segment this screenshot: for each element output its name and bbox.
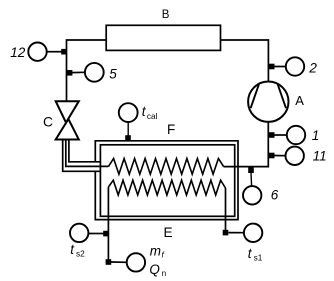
condenser B <box>106 25 220 50</box>
node t_cal <box>125 135 131 141</box>
node 2 <box>269 64 275 70</box>
svg-text:5: 5 <box>109 67 117 82</box>
svg-text:B: B <box>162 9 170 21</box>
pipe inner line valve to vessel wall <box>69 140 101 162</box>
wire to sensor m_f <box>111 261 127 263</box>
probe t_cal stem <box>127 122 129 137</box>
wire to sensor t_s1 <box>229 232 245 234</box>
svg-text:cal: cal <box>147 112 158 121</box>
node t_s1 <box>223 230 229 236</box>
sensor circle m_f <box>127 253 145 271</box>
wire to sensor 2 <box>273 66 286 68</box>
wire to sensor 1 <box>273 134 287 136</box>
probe circle t_cal <box>119 103 138 122</box>
sensor circle t_s2 <box>70 224 88 242</box>
svg-text:C: C <box>43 114 53 129</box>
wire to sensor 6 <box>250 173 253 187</box>
node 5 <box>67 70 73 76</box>
svg-text:11: 11 <box>313 148 327 163</box>
sensor circle 11 <box>286 147 304 165</box>
wire B left to valve <box>67 40 107 101</box>
svg-text:1: 1 <box>312 128 320 143</box>
wire to sensor 5 <box>71 71 85 73</box>
sensor circle 2 <box>286 57 304 75</box>
vessel inner shell E <box>100 145 234 217</box>
sensor circle 5 <box>85 63 104 82</box>
wire to sensor 12 <box>47 51 62 53</box>
pipe outer line valve to vessel <box>63 140 101 172</box>
svg-text:n: n <box>162 269 167 278</box>
pipe middle line valve to coil <box>66 140 109 167</box>
svg-text:E: E <box>164 225 173 240</box>
svg-text:6: 6 <box>271 188 279 203</box>
sensor circle 6 <box>243 186 261 204</box>
node 12 <box>61 49 67 55</box>
expansion valve C upper triangle <box>56 101 79 122</box>
node 1 <box>269 132 275 138</box>
svg-text:Q: Q <box>149 262 160 277</box>
svg-text:2: 2 <box>308 60 317 75</box>
wire to sensor 11 <box>273 155 286 157</box>
node m_f <box>106 259 112 265</box>
sensor circle 12 <box>28 43 46 61</box>
sensor circle t_s1 <box>244 224 262 242</box>
vessel outer shell F (left wall gap at pipe entry) <box>95 141 238 220</box>
compressor A <box>248 82 288 122</box>
svg-text:s2: s2 <box>76 250 85 259</box>
wire B right to compressor <box>221 40 269 83</box>
svg-text:A: A <box>295 93 304 108</box>
expansion valve C lower triangle <box>56 119 79 140</box>
heater lead left (down through vessel bottom) <box>107 187 109 262</box>
lower heater coil <box>108 180 225 195</box>
upper evaporator coil <box>108 159 223 175</box>
wire to sensor t_s2 <box>88 233 103 235</box>
svg-text:s1: s1 <box>254 254 263 263</box>
sensor circle 1 <box>287 126 305 144</box>
node 11 <box>269 153 275 159</box>
svg-text:F: F <box>167 122 175 137</box>
node 6 <box>248 167 254 173</box>
svg-text:m: m <box>150 243 161 258</box>
wire compressor to evaporator coil (suction line) <box>224 122 269 167</box>
heater lead right (down through vessel bottom) <box>225 188 227 233</box>
node t_s2 <box>103 231 109 237</box>
svg-text:12: 12 <box>10 45 26 60</box>
